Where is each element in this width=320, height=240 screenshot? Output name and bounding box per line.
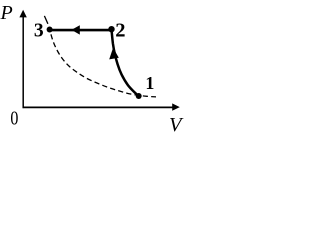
x-axis arrowhead	[172, 103, 180, 110]
adiabat curve 1 to 2	[112, 29, 139, 96]
svg-text:0: 0	[10, 106, 18, 128]
svg-text:1: 1	[145, 73, 154, 93]
dashed isotherm: long first dash above point 3	[44, 16, 48, 24]
x-axis (V)	[23, 106, 174, 108]
y-axis (P)	[22, 16, 24, 108]
up-pointing arrowhead on curve 1->2	[109, 48, 119, 60]
y-axis arrowhead	[19, 10, 26, 18]
svg-text:P: P	[0, 2, 13, 24]
dashed isotherm through points 3 and 1	[50, 30, 156, 97]
point 1 dot	[136, 93, 142, 99]
P-V thermodynamic cycle diagram	[0, 0, 197, 139]
svg-text:3: 3	[34, 20, 44, 41]
svg-text:2: 2	[115, 20, 125, 42]
point 3 dot	[47, 27, 53, 33]
point 2 dot	[108, 26, 114, 32]
isobar line 2 to 3	[50, 29, 112, 32]
left-pointing arrowhead on line 2->3	[71, 25, 79, 34]
